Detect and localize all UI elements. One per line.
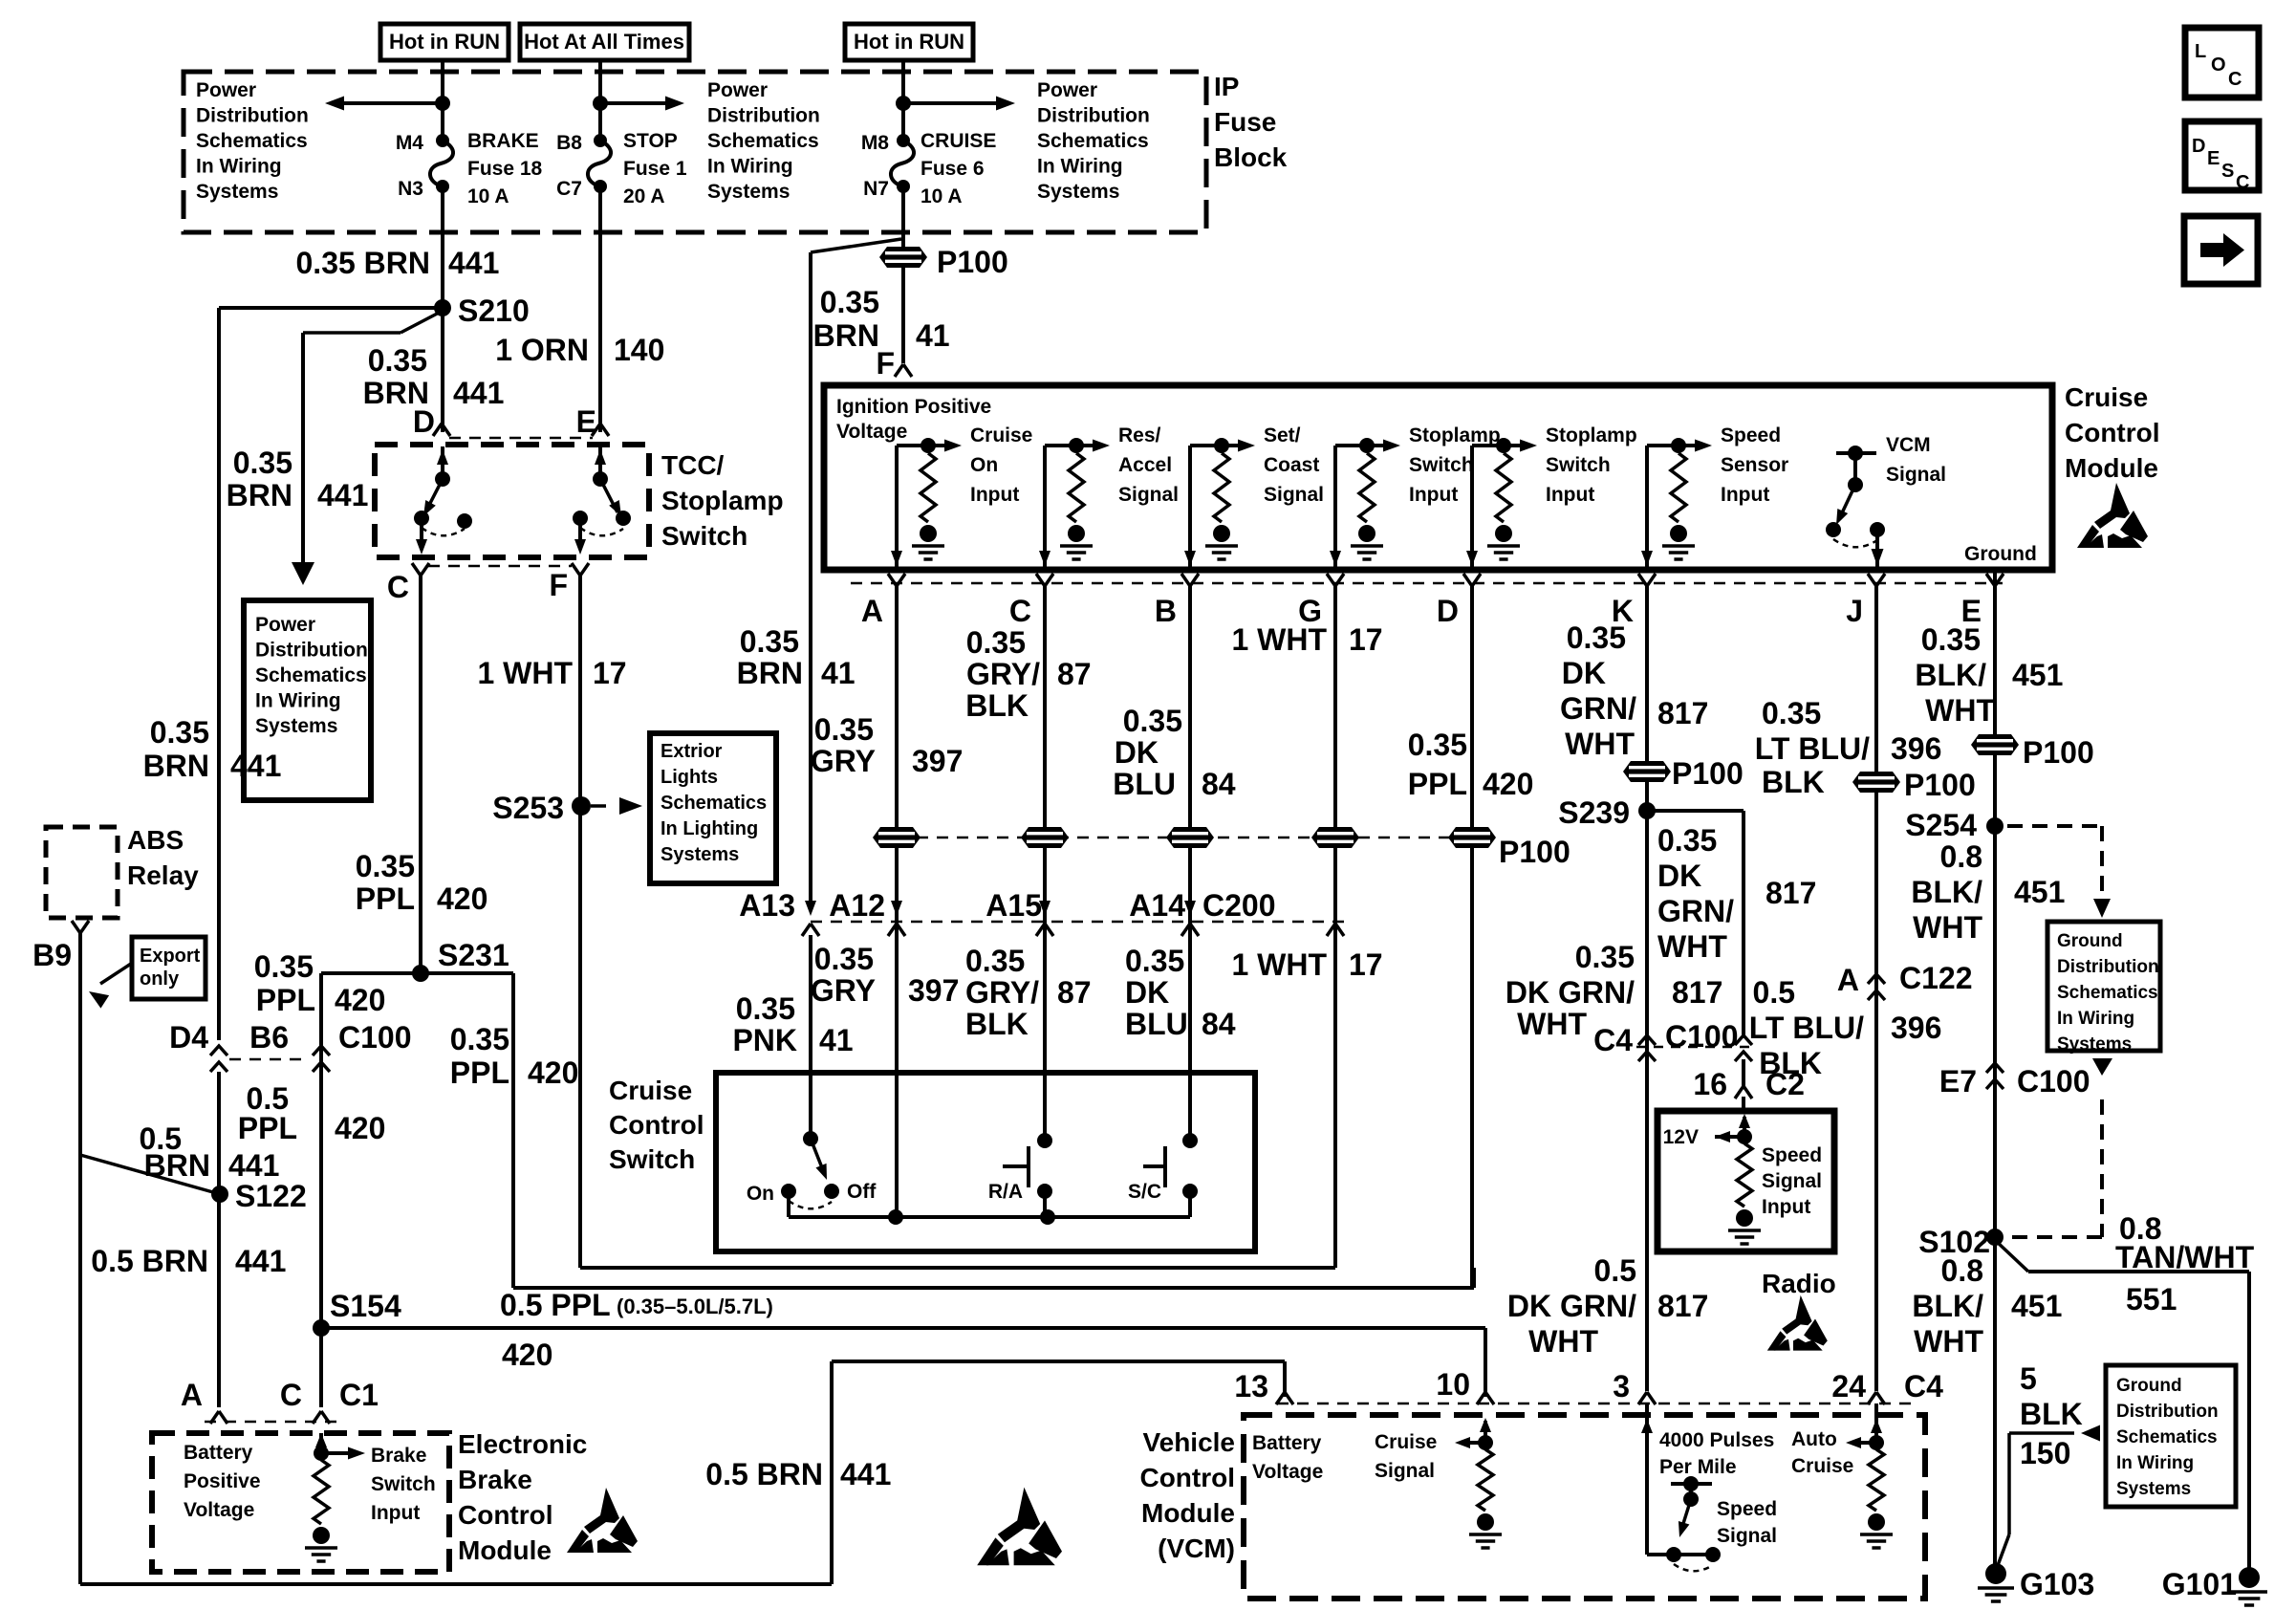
- svg-text:Module: Module: [458, 1535, 552, 1565]
- svg-text:BLK/: BLK/: [1911, 875, 1982, 909]
- svg-text:Off: Off: [847, 1181, 877, 1203]
- svg-text:Electronic: Electronic: [458, 1429, 587, 1459]
- svg-text:Control: Control: [609, 1110, 704, 1140]
- svg-text:PPL: PPL: [1408, 767, 1467, 801]
- svg-text:41: 41: [916, 318, 950, 353]
- svg-text:Systems: Systems: [255, 715, 337, 737]
- svg-text:0.5: 0.5: [1594, 1253, 1636, 1288]
- svg-text:Stoplamp: Stoplamp: [1409, 424, 1501, 446]
- svg-text:0.35: 0.35: [965, 944, 1025, 978]
- svg-text:BRN: BRN: [737, 656, 803, 690]
- svg-text:Schematics: Schematics: [196, 130, 308, 152]
- svg-text:WHT: WHT: [1925, 693, 1995, 728]
- svg-text:PNK: PNK: [732, 1023, 797, 1057]
- svg-text:BRAKE: BRAKE: [467, 130, 539, 152]
- svg-text:In Wiring: In Wiring: [196, 156, 282, 178]
- svg-text:10 A: 10 A: [921, 185, 963, 207]
- svg-text:S/C: S/C: [1128, 1181, 1161, 1203]
- svg-text:In Wiring: In Wiring: [707, 156, 793, 178]
- svg-text:0.35: 0.35: [254, 949, 314, 984]
- svg-text:Brake: Brake: [458, 1465, 532, 1494]
- svg-text:Fuse 1: Fuse 1: [623, 158, 687, 180]
- svg-text:12V: 12V: [1663, 1126, 1699, 1148]
- svg-text:Control: Control: [1139, 1463, 1235, 1492]
- svg-text:441: 441: [230, 749, 281, 783]
- svg-text:451: 451: [2011, 1289, 2062, 1323]
- svg-text:C: C: [1009, 594, 1031, 628]
- svg-text:C7: C7: [556, 178, 582, 200]
- svg-text:17: 17: [1349, 622, 1383, 657]
- svg-text:C100: C100: [2017, 1064, 2090, 1099]
- svg-text:G103: G103: [2020, 1567, 2094, 1601]
- svg-text:C4: C4: [1593, 1023, 1633, 1057]
- svg-text:N7: N7: [863, 178, 889, 200]
- svg-text:BRN: BRN: [143, 749, 209, 783]
- svg-text:Signal: Signal: [1886, 464, 1946, 486]
- svg-text:41: 41: [821, 656, 856, 690]
- svg-text:Radio: Radio: [1762, 1269, 1836, 1298]
- svg-text:A13: A13: [739, 888, 795, 923]
- svg-text:Battery: Battery: [1252, 1432, 1322, 1454]
- svg-text:441: 441: [317, 478, 368, 512]
- svg-text:M4: M4: [396, 132, 423, 154]
- svg-text:10: 10: [1436, 1367, 1470, 1402]
- svg-text:Fuse 6: Fuse 6: [921, 158, 985, 180]
- svg-text:Brake: Brake: [371, 1445, 426, 1467]
- svg-text:420: 420: [335, 1111, 385, 1145]
- svg-text:GRY: GRY: [811, 973, 876, 1008]
- svg-text:Control: Control: [2065, 418, 2160, 447]
- svg-text:Speed: Speed: [1721, 424, 1781, 446]
- svg-text:A: A: [861, 594, 883, 628]
- svg-text:BLK: BLK: [965, 688, 1029, 723]
- svg-text:84: 84: [1202, 1007, 1236, 1041]
- svg-text:Systems: Systems: [707, 181, 790, 203]
- svg-text:C: C: [280, 1378, 302, 1412]
- svg-text:WHT: WHT: [1913, 910, 1982, 945]
- svg-text:0.35: 0.35: [1123, 704, 1182, 738]
- svg-text:D: D: [413, 404, 435, 439]
- svg-text:Input: Input: [1762, 1196, 1810, 1218]
- svg-text:Systems: Systems: [2116, 1479, 2191, 1499]
- svg-text:551: 551: [2126, 1282, 2177, 1316]
- svg-text:Switch: Switch: [609, 1144, 695, 1174]
- svg-text:Input: Input: [970, 484, 1019, 506]
- svg-text:BLK: BLK: [1762, 765, 1825, 799]
- svg-text:Voltage: Voltage: [836, 421, 907, 443]
- svg-text:PPL: PPL: [256, 983, 315, 1017]
- svg-text:Relay: Relay: [127, 860, 199, 890]
- svg-text:Fuse: Fuse: [1214, 107, 1276, 137]
- svg-text:0.35: 0.35: [1575, 940, 1635, 974]
- svg-text:BLK: BLK: [965, 1007, 1029, 1041]
- svg-text:Ignition Positive: Ignition Positive: [836, 396, 991, 418]
- svg-text:20 A: 20 A: [623, 185, 665, 207]
- svg-text:0.35: 0.35: [1657, 823, 1717, 858]
- svg-text:Switch: Switch: [1546, 454, 1611, 476]
- svg-text:WHT: WHT: [1517, 1007, 1587, 1041]
- svg-text:A15: A15: [986, 888, 1042, 923]
- svg-text:Signal: Signal: [1717, 1525, 1777, 1547]
- svg-text:Switch: Switch: [661, 521, 747, 551]
- svg-text:B: B: [1155, 594, 1177, 628]
- svg-text:BRN: BRN: [227, 478, 292, 512]
- svg-text:R/A: R/A: [988, 1181, 1023, 1203]
- svg-text:N3: N3: [398, 178, 423, 200]
- svg-text:Distribution: Distribution: [2057, 957, 2159, 977]
- svg-text:0.5 BRN: 0.5 BRN: [705, 1457, 823, 1491]
- svg-text:DK: DK: [1657, 859, 1701, 893]
- svg-text:451: 451: [2012, 658, 2063, 692]
- svg-text:D4: D4: [169, 1020, 208, 1055]
- svg-text:Extrior: Extrior: [661, 741, 723, 762]
- svg-text:Fuse 18: Fuse 18: [467, 158, 543, 180]
- svg-text:0.35: 0.35: [1762, 696, 1821, 730]
- svg-text:13: 13: [1234, 1369, 1268, 1403]
- svg-text:0.35: 0.35: [814, 712, 874, 747]
- svg-text:A14: A14: [1129, 888, 1185, 923]
- svg-text:E: E: [2207, 148, 2220, 169]
- svg-text:DK GRN/: DK GRN/: [1507, 1289, 1636, 1323]
- svg-text:441: 441: [228, 1148, 279, 1183]
- svg-text:C4: C4: [1904, 1369, 1943, 1403]
- svg-text:0.35: 0.35: [368, 343, 427, 378]
- svg-text:On: On: [747, 1183, 774, 1205]
- svg-text:GRN/: GRN/: [1657, 894, 1734, 928]
- svg-text:In Lighting: In Lighting: [661, 818, 758, 839]
- svg-text:Schematics: Schematics: [1037, 130, 1149, 152]
- svg-text:S231: S231: [438, 938, 509, 972]
- svg-text:Schematics: Schematics: [661, 793, 767, 814]
- svg-text:0.35: 0.35: [1567, 620, 1626, 655]
- svg-text:396: 396: [1891, 731, 1941, 766]
- svg-text:Set/: Set/: [1264, 424, 1301, 446]
- svg-text:Distribution: Distribution: [2116, 1402, 2219, 1422]
- svg-text:E7: E7: [1939, 1064, 1977, 1099]
- svg-text:17: 17: [593, 656, 627, 690]
- svg-text:441: 441: [235, 1244, 286, 1278]
- svg-text:IP: IP: [1214, 72, 1239, 101]
- svg-text:Distribution: Distribution: [255, 640, 368, 662]
- svg-text:S: S: [2221, 161, 2234, 182]
- svg-text:DK: DK: [1562, 656, 1606, 690]
- svg-text:Input: Input: [1721, 484, 1769, 506]
- svg-text:0.5 PPL: 0.5 PPL: [500, 1288, 611, 1322]
- svg-text:TAN/WHT: TAN/WHT: [2115, 1240, 2255, 1274]
- svg-text:PPL: PPL: [238, 1111, 297, 1145]
- svg-text:0.5 BRN: 0.5 BRN: [91, 1244, 208, 1278]
- svg-text:Per Mile: Per Mile: [1659, 1456, 1737, 1478]
- svg-text:C: C: [2228, 69, 2242, 90]
- svg-text:0.35: 0.35: [233, 446, 292, 480]
- svg-text:Positive: Positive: [184, 1470, 261, 1492]
- svg-text:0.35: 0.35: [966, 625, 1026, 660]
- svg-text:In Wiring: In Wiring: [1037, 156, 1123, 178]
- svg-text:41: 41: [819, 1023, 854, 1057]
- svg-text:Distribution: Distribution: [196, 105, 309, 127]
- svg-text:24: 24: [1831, 1369, 1866, 1403]
- svg-text:BLK/: BLK/: [1912, 1289, 1983, 1323]
- svg-text:P100: P100: [1672, 756, 1744, 791]
- svg-text:0.5: 0.5: [1753, 975, 1795, 1010]
- svg-text:0.8: 0.8: [1941, 1253, 1983, 1288]
- svg-text:817: 817: [1672, 975, 1722, 1010]
- svg-text:140: 140: [614, 333, 664, 367]
- svg-text:Power: Power: [1037, 79, 1097, 101]
- svg-text:S122: S122: [235, 1179, 307, 1213]
- svg-text:P100: P100: [1499, 835, 1570, 869]
- svg-text:F: F: [549, 568, 568, 602]
- svg-text:Accel: Accel: [1118, 454, 1172, 476]
- svg-text:817: 817: [1657, 696, 1708, 730]
- svg-text:Signal: Signal: [1118, 484, 1179, 506]
- svg-text:441: 441: [453, 376, 504, 410]
- svg-text:Cruise: Cruise: [609, 1076, 692, 1105]
- svg-text:Hot in RUN: Hot in RUN: [854, 30, 964, 54]
- svg-text:GRY/: GRY/: [966, 657, 1040, 691]
- svg-text:420: 420: [335, 983, 385, 1017]
- svg-text:Ground: Ground: [1964, 543, 2037, 565]
- svg-text:C100: C100: [338, 1020, 412, 1055]
- svg-text:441: 441: [448, 246, 499, 280]
- svg-text:Input: Input: [1409, 484, 1458, 506]
- svg-text:451: 451: [2014, 875, 2065, 909]
- svg-text:817: 817: [1657, 1289, 1708, 1323]
- svg-text:Ground: Ground: [2116, 1376, 2182, 1396]
- svg-text:C: C: [387, 570, 409, 604]
- svg-text:S253: S253: [492, 791, 564, 825]
- svg-text:0.8: 0.8: [1940, 839, 1982, 874]
- svg-text:1 WHT: 1 WHT: [1231, 947, 1327, 982]
- svg-text:3: 3: [1613, 1369, 1630, 1403]
- svg-text:GRY/: GRY/: [965, 975, 1039, 1010]
- svg-text:Schematics: Schematics: [2057, 983, 2158, 1003]
- svg-text:P100: P100: [1904, 768, 1976, 802]
- svg-text:B9: B9: [32, 938, 72, 972]
- svg-text:5: 5: [2020, 1361, 2037, 1396]
- svg-text:Switch: Switch: [1409, 454, 1474, 476]
- svg-text:Systems: Systems: [2057, 1034, 2132, 1055]
- svg-text:Switch: Switch: [371, 1473, 436, 1495]
- svg-text:1 ORN: 1 ORN: [495, 333, 589, 367]
- svg-text:Res/: Res/: [1118, 424, 1161, 446]
- svg-text:B6: B6: [249, 1020, 289, 1055]
- svg-text:CRUISE: CRUISE: [921, 130, 996, 152]
- svg-text:Module: Module: [2065, 453, 2158, 483]
- svg-text:Stoplamp: Stoplamp: [661, 486, 784, 515]
- svg-text:S239: S239: [1558, 795, 1630, 830]
- svg-text:0.35: 0.35: [150, 715, 209, 750]
- svg-text:420: 420: [528, 1055, 578, 1090]
- svg-text:BLK/: BLK/: [1915, 658, 1986, 692]
- svg-text:WHT: WHT: [1657, 929, 1727, 964]
- svg-text:STOP: STOP: [623, 130, 678, 152]
- svg-text:VCM: VCM: [1886, 434, 1931, 456]
- svg-text:Cruise: Cruise: [1791, 1455, 1853, 1477]
- svg-text:In Wiring: In Wiring: [2057, 1009, 2134, 1029]
- svg-text:D: D: [2192, 136, 2205, 157]
- svg-text:S210: S210: [458, 294, 530, 328]
- svg-text:0.35: 0.35: [820, 285, 879, 319]
- svg-text:10 A: 10 A: [467, 185, 509, 207]
- svg-text:P100: P100: [2023, 735, 2094, 770]
- svg-text:Export: Export: [140, 946, 201, 967]
- svg-text:TCC/: TCC/: [661, 450, 725, 480]
- svg-text:Input: Input: [371, 1502, 420, 1524]
- svg-text:Power: Power: [707, 79, 768, 101]
- svg-text:PPL: PPL: [356, 881, 415, 916]
- svg-text:Signal: Signal: [1264, 484, 1324, 506]
- svg-text:0.35: 0.35: [1125, 944, 1184, 978]
- svg-text:On: On: [970, 454, 998, 476]
- svg-text:17: 17: [1349, 947, 1383, 982]
- svg-text:In Wiring: In Wiring: [255, 690, 341, 712]
- svg-text:S254: S254: [1905, 808, 1977, 842]
- svg-text:Schematics: Schematics: [707, 130, 819, 152]
- svg-text:1 WHT: 1 WHT: [477, 656, 573, 690]
- svg-text:Schematics: Schematics: [2116, 1427, 2218, 1447]
- svg-text:(VCM): (VCM): [1158, 1534, 1235, 1563]
- svg-text:420: 420: [502, 1338, 552, 1372]
- svg-text:(0.35–5.0L/5.7L): (0.35–5.0L/5.7L): [617, 1295, 773, 1318]
- svg-text:PPL: PPL: [450, 1055, 509, 1090]
- svg-text:LT BLU/: LT BLU/: [1755, 731, 1870, 766]
- svg-text:BRN: BRN: [813, 318, 879, 353]
- svg-text:J: J: [1846, 594, 1863, 628]
- svg-text:Input: Input: [1546, 484, 1594, 506]
- svg-text:0.35: 0.35: [814, 942, 874, 976]
- svg-text:4000 Pulses: 4000 Pulses: [1659, 1429, 1774, 1451]
- svg-text:397: 397: [912, 744, 963, 778]
- svg-text:Schematics: Schematics: [255, 664, 367, 686]
- svg-text:Voltage: Voltage: [184, 1499, 254, 1521]
- svg-text:441: 441: [840, 1457, 891, 1491]
- svg-text:Speed: Speed: [1762, 1144, 1822, 1166]
- svg-text:DK GRN/: DK GRN/: [1505, 975, 1635, 1010]
- svg-text:L: L: [2195, 41, 2206, 62]
- svg-text:BLU: BLU: [1113, 767, 1176, 801]
- svg-text:LT BLU/: LT BLU/: [1749, 1011, 1864, 1045]
- svg-text:WHT: WHT: [1914, 1324, 1983, 1359]
- svg-text:Lights: Lights: [661, 767, 718, 788]
- svg-text:only: only: [140, 968, 180, 990]
- svg-text:Systems: Systems: [661, 844, 739, 865]
- svg-text:Systems: Systems: [1037, 181, 1119, 203]
- svg-text:Hot At All Times: Hot At All Times: [524, 30, 684, 54]
- svg-text:G101: G101: [2162, 1567, 2237, 1601]
- svg-text:Block: Block: [1214, 142, 1288, 172]
- svg-text:Ground: Ground: [2057, 931, 2123, 951]
- svg-text:C: C: [2236, 172, 2249, 193]
- svg-text:C1: C1: [339, 1378, 379, 1412]
- svg-text:In Wiring: In Wiring: [2116, 1453, 2194, 1473]
- svg-text:Speed: Speed: [1717, 1498, 1777, 1520]
- svg-text:ABS: ABS: [127, 825, 184, 855]
- svg-text:Vehicle: Vehicle: [1142, 1427, 1235, 1457]
- svg-text:BLK: BLK: [2020, 1397, 2083, 1431]
- svg-text:GRN/: GRN/: [1560, 691, 1636, 726]
- svg-text:Control: Control: [458, 1500, 553, 1530]
- svg-text:B8: B8: [556, 132, 582, 154]
- svg-text:Coast: Coast: [1264, 454, 1319, 476]
- svg-text:0.35: 0.35: [736, 991, 795, 1026]
- svg-text:GRY: GRY: [811, 744, 876, 778]
- svg-text:Auto: Auto: [1791, 1428, 1837, 1450]
- svg-text:A12: A12: [829, 888, 885, 923]
- svg-text:1 WHT: 1 WHT: [1231, 622, 1327, 657]
- svg-text:0.35: 0.35: [1408, 728, 1467, 762]
- svg-text:Voltage: Voltage: [1252, 1461, 1323, 1483]
- svg-text:Stoplamp: Stoplamp: [1546, 424, 1637, 446]
- svg-text:Signal: Signal: [1762, 1170, 1822, 1192]
- svg-text:420: 420: [1483, 767, 1533, 801]
- svg-text:C100: C100: [1665, 1019, 1739, 1054]
- svg-text:Power: Power: [196, 79, 256, 101]
- svg-text:420: 420: [437, 881, 487, 916]
- svg-text:817: 817: [1765, 876, 1816, 910]
- svg-text:Cruise: Cruise: [970, 424, 1032, 446]
- svg-text:Signal: Signal: [1375, 1460, 1435, 1482]
- svg-text:Hot in RUN: Hot in RUN: [389, 30, 500, 54]
- svg-text:397: 397: [908, 973, 959, 1008]
- svg-text:0.35: 0.35: [356, 849, 415, 883]
- svg-text:396: 396: [1891, 1011, 1941, 1045]
- svg-text:Distribution: Distribution: [707, 105, 820, 127]
- svg-text:Battery: Battery: [184, 1442, 253, 1464]
- svg-text:P100: P100: [937, 245, 1008, 279]
- svg-text:Cruise: Cruise: [1375, 1431, 1437, 1453]
- svg-text:BLK: BLK: [1759, 1046, 1822, 1080]
- svg-text:0.35: 0.35: [1921, 622, 1981, 657]
- svg-text:150: 150: [2020, 1436, 2070, 1470]
- svg-text:87: 87: [1057, 657, 1092, 691]
- svg-text:F: F: [876, 346, 895, 381]
- svg-text:DK: DK: [1125, 975, 1169, 1010]
- svg-text:BRN: BRN: [144, 1148, 210, 1183]
- svg-text:Power: Power: [255, 614, 315, 636]
- svg-text:WHT: WHT: [1565, 727, 1635, 761]
- svg-text:87: 87: [1057, 975, 1092, 1010]
- svg-text:Systems: Systems: [196, 181, 278, 203]
- svg-text:Sensor: Sensor: [1721, 454, 1788, 476]
- svg-text:Module: Module: [1141, 1498, 1235, 1528]
- svg-text:0.35 BRN: 0.35 BRN: [296, 246, 431, 280]
- svg-text:16: 16: [1693, 1067, 1727, 1101]
- svg-text:D: D: [1437, 594, 1459, 628]
- svg-text:WHT: WHT: [1528, 1324, 1598, 1359]
- svg-text:0.35: 0.35: [740, 624, 799, 659]
- svg-text:C200: C200: [1202, 888, 1276, 923]
- svg-text:0.35: 0.35: [450, 1022, 509, 1056]
- svg-text:BLU: BLU: [1125, 1007, 1188, 1041]
- svg-text:Cruise: Cruise: [2065, 382, 2148, 412]
- svg-text:M8: M8: [861, 132, 889, 154]
- svg-text:DK: DK: [1115, 735, 1159, 770]
- svg-text:C122: C122: [1899, 961, 1973, 995]
- svg-text:84: 84: [1202, 767, 1236, 801]
- svg-text:S154: S154: [330, 1289, 401, 1323]
- svg-text:A: A: [1837, 963, 1859, 997]
- svg-text:A: A: [181, 1378, 203, 1412]
- svg-text:O: O: [2211, 54, 2226, 76]
- svg-text:Distribution: Distribution: [1037, 105, 1150, 127]
